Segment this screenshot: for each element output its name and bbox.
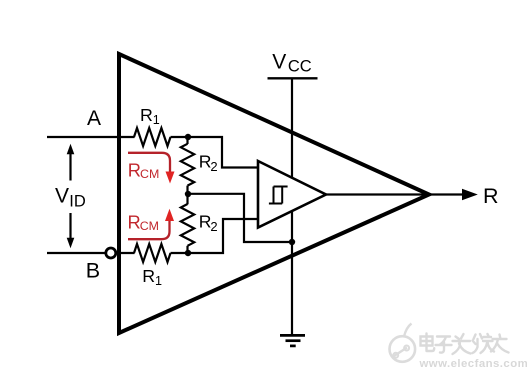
- wire output: [326, 193, 463, 195]
- resistor R1 (bottom, input B): [134, 244, 171, 262]
- output arrowhead: [462, 189, 478, 200]
- watermark logo: [390, 324, 416, 362]
- svg-text:1: 1: [153, 113, 160, 127]
- RCM current arrow (bottom, upward): [128, 221, 170, 240]
- RCM current arrow (top, downward): [128, 153, 170, 173]
- hysteresis symbol: [269, 186, 288, 205]
- svg-text:B: B: [86, 259, 100, 283]
- resistor R2 (top): [186, 137, 188, 144]
- resistor R1 (top, input A): [134, 128, 171, 146]
- watermark text 电子发烧友 (approximated strokes): [421, 334, 509, 355]
- node A junction dot: [185, 134, 191, 140]
- comparator U2 inner triangle (Schmitt): [258, 161, 326, 228]
- VID down arrow: [69, 213, 71, 239]
- svg-text:1: 1: [155, 274, 162, 288]
- node B junction dot: [185, 250, 191, 256]
- ground: [280, 335, 305, 346]
- svg-text:CM: CM: [140, 219, 159, 233]
- wire input B: [47, 252, 105, 254]
- svg-text:2: 2: [210, 219, 217, 234]
- svg-text:2: 2: [210, 159, 217, 174]
- node center-tap junction dot: [185, 191, 191, 197]
- svg-text:CC: CC: [288, 58, 312, 76]
- comparator U1 outer triangle: [119, 54, 429, 333]
- svg-text:R: R: [483, 184, 499, 208]
- wire node B to comparator inverting input: [171, 219, 258, 253]
- wire node A to comparator noninverting input: [171, 137, 258, 168]
- svg-text:R: R: [142, 266, 155, 286]
- wire input A: [47, 136, 135, 138]
- resistor R2 (bottom): [186, 194, 188, 204]
- svg-text:ID: ID: [69, 192, 86, 210]
- VID up arrow: [69, 153, 71, 181]
- svg-text:CM: CM: [140, 167, 159, 181]
- svg-text:V: V: [272, 50, 286, 73]
- svg-text:A: A: [87, 107, 101, 130]
- svg-text:V: V: [55, 184, 69, 207]
- wire Vcc vertical line (Vcc bar to ground): [291, 80, 293, 335]
- Vcc bar: [268, 77, 318, 79]
- svg-text:R: R: [140, 105, 153, 125]
- inverting input bubble on B: [106, 248, 116, 258]
- node rail junction dot: [289, 239, 295, 245]
- wire center tap to Vcc/ground rail: [188, 194, 292, 242]
- svg-text:www.elecfans.com: www.elecfans.com: [419, 358, 527, 370]
